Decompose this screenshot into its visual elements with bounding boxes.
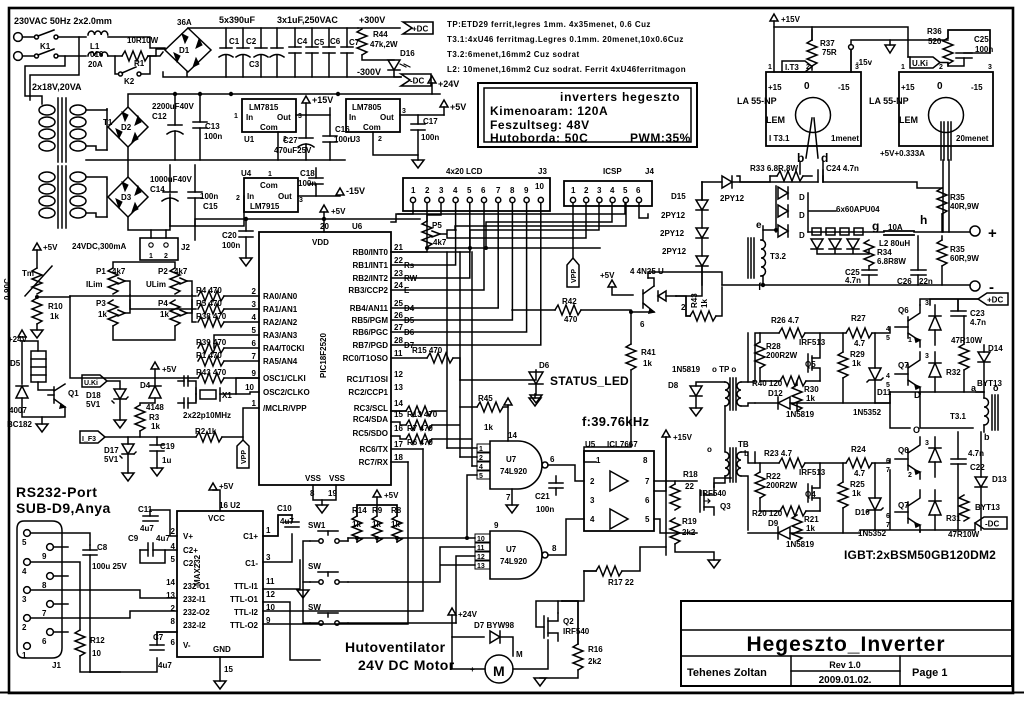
power -15V [336, 188, 344, 195]
svg-text:Q2: Q2 [563, 617, 574, 626]
svg-text:5: 5 [252, 326, 257, 335]
svg-text:10R10W: 10R10W [127, 36, 159, 45]
svg-text:C21: C21 [535, 492, 550, 501]
svg-text:Q3: Q3 [720, 502, 731, 511]
plus bus wire [808, 231, 970, 233]
connector J3 pins [410, 182, 544, 203]
svg-text:470uF25V: 470uF25V [274, 146, 312, 155]
wire TTL-I2 long [263, 449, 423, 611]
wire U5 out pin7 [654, 480, 697, 482]
svg-text:+5V: +5V [600, 271, 615, 280]
svg-text:+24V: +24V [458, 610, 478, 619]
title block [681, 601, 1012, 686]
flag VPP mclr [237, 437, 249, 468]
transformer TP right coil [737, 382, 741, 406]
svg-text:Tm: Tm [22, 269, 34, 278]
svg-text:1: 1 [149, 253, 153, 260]
svg-text:2PY12: 2PY12 [661, 211, 686, 220]
svg-text:13: 13 [394, 383, 403, 392]
switch SW1 [310, 531, 348, 543]
zener D10 [867, 498, 883, 512]
wire P5 bottom [391, 247, 427, 252]
svg-text:1: 1 [252, 399, 257, 408]
svg-text:D13: D13 [992, 475, 1007, 484]
flag U.Ki [910, 57, 940, 68]
svg-text:4: 4 [479, 464, 483, 471]
power +24V [18, 330, 26, 337]
sensor LA55 box1 [766, 72, 861, 146]
wire R8 to SW3 [348, 622, 456, 624]
crystal X1 [196, 388, 220, 401]
svg-text:D9: D9 [768, 519, 779, 528]
svg-text:+15V: +15V [673, 433, 693, 442]
transformer TP core [730, 378, 736, 410]
svg-text:+DC: +DC [987, 296, 1003, 305]
svg-text:X1: X1 [222, 391, 232, 400]
wire J1 pin5 to C8 [31, 533, 90, 545]
svg-text:28: 28 [394, 336, 403, 345]
wire bottom AC [58, 55, 86, 57]
wire +15V down [654, 437, 666, 491]
svg-text:C13: C13 [205, 122, 220, 131]
svg-text:74L920: 74L920 [500, 557, 528, 566]
wire C9 loop [140, 550, 177, 563]
svg-text:BC182: BC182 [7, 420, 32, 429]
svg-text:17: 17 [394, 440, 403, 449]
wire cathode bus [788, 182, 792, 231]
connector J2 [140, 238, 178, 260]
choke L1 winding top [88, 31, 108, 35]
svg-text:1: 1 [901, 64, 905, 71]
svg-text:2: 2 [378, 136, 382, 143]
svg-text:2200uF40V: 2200uF40V [152, 102, 194, 111]
svg-text:1: 1 [411, 186, 416, 195]
svg-text:M: M [516, 650, 523, 659]
capacitor C21 [549, 476, 563, 495]
svg-text:U3: U3 [350, 135, 361, 144]
svg-text:74L920: 74L920 [500, 467, 528, 476]
igbt diode upper [929, 305, 941, 345]
svg-text:D2: D2 [121, 123, 132, 132]
gate U7a input pins [477, 444, 490, 480]
switch K2 bypass [115, 56, 150, 76]
svg-text:3: 3 [925, 353, 929, 360]
svg-text:R10: R10 [48, 302, 63, 311]
transformer TB core [730, 448, 736, 482]
svg-text:C10: C10 [277, 504, 292, 513]
wire motor left [452, 637, 485, 669]
svg-text:P4: P4 [158, 299, 168, 308]
wire U7b out to U5 [548, 519, 584, 555]
svg-text:8: 8 [42, 581, 47, 590]
svg-text:BYT13: BYT13 [975, 503, 1000, 512]
svg-text:6: 6 [171, 638, 176, 647]
svg-text:6: 6 [645, 496, 650, 505]
svg-text:R19: R19 [682, 517, 697, 526]
MAX232 pin numbers [166, 527, 175, 647]
svg-text:ULim: ULim [146, 280, 166, 289]
svg-text:RA2/AN2: RA2/AN2 [263, 318, 298, 327]
svg-text:7: 7 [42, 609, 47, 618]
svg-text:TTL-I2: TTL-I2 [234, 608, 259, 617]
wire e to winding [761, 226, 763, 240]
svg-text:6: 6 [640, 320, 645, 329]
svg-text:RC5/SDO: RC5/SDO [352, 429, 388, 438]
svg-text:3: 3 [402, 108, 406, 115]
wire D6 [391, 203, 527, 332]
svg-text:100n: 100n [421, 133, 439, 142]
rectifier diode bus left [763, 186, 776, 232]
capacitor C1 [219, 28, 233, 77]
svg-text:LEM: LEM [899, 115, 918, 125]
svg-text:3: 3 [22, 595, 27, 604]
svg-text:2: 2 [806, 64, 810, 71]
wire RB0 [391, 248, 470, 252]
svg-text:Hegeszto_Inverter: Hegeszto_Inverter [746, 633, 945, 656]
svg-text:C2-: C2- [183, 559, 196, 568]
wire Q2 drain top [557, 601, 559, 613]
svg-text:b: b [984, 432, 990, 442]
wire J4 pin4 horizontal [486, 203, 612, 248]
svg-text:ILim: ILim [86, 280, 102, 289]
svg-text:Out: Out [277, 113, 291, 122]
wire P4 wiper to RA2 [192, 295, 196, 322]
svg-text:3: 3 [855, 64, 859, 71]
svg-text:Out: Out [278, 192, 292, 201]
ground below C20 [240, 258, 252, 266]
svg-text:+15V: +15V [312, 95, 333, 105]
svg-text:47R10W: 47R10W [951, 336, 983, 345]
svg-text:-300V: -300V [357, 67, 381, 77]
flag -DC right [975, 517, 1007, 529]
svg-text:+DC: +DC [412, 25, 428, 34]
wire TTL rows to PIC [263, 560, 300, 589]
opto emitter to R41 [631, 312, 654, 344]
svg-text:IRF513: IRF513 [799, 468, 826, 477]
svg-text:C12: C12 [152, 112, 167, 121]
svg-text:SUB-D9,Anya: SUB-D9,Anya [16, 500, 111, 516]
potentiometer P4 [170, 300, 192, 326]
svg-text:C9: C9 [128, 534, 139, 543]
wire pots to ground [113, 326, 175, 340]
svg-text:RC0/T1OSO: RC0/T1OSO [343, 354, 388, 363]
wire C10 to C1 pins [263, 515, 292, 536]
svg-text:C7: C7 [153, 633, 164, 642]
resistor R30 1k [792, 385, 802, 411]
ground MAX232 [214, 681, 226, 689]
wire TP secondary to channel [741, 333, 755, 406]
svg-text:SW1: SW1 [308, 521, 326, 530]
svg-text:D: D [799, 231, 805, 240]
svg-text:200R2W: 200R2W [766, 351, 798, 360]
wire U3 out to +5V [400, 114, 444, 116]
svg-text:2: 2 [171, 527, 176, 536]
svg-text:VSS: VSS [329, 474, 346, 483]
svg-text:OSC1/CLKI: OSC1/CLKI [263, 374, 306, 383]
svg-text:3: 3 [266, 553, 271, 562]
svg-text:U.Ki: U.Ki [912, 59, 928, 68]
ground flag near gate [529, 398, 541, 406]
capacitor C15 [188, 165, 202, 226]
wire Q3 drain up to TB [714, 478, 731, 487]
svg-text:I.T3: I.T3 [785, 63, 799, 72]
svg-text:11: 11 [394, 349, 403, 358]
svg-text:4: 4 [171, 542, 176, 551]
svg-text:D1: D1 [179, 46, 190, 55]
svg-text:1N5819: 1N5819 [786, 540, 815, 549]
svg-text:D18: D18 [86, 391, 101, 400]
svg-text:2PY12: 2PY12 [660, 229, 685, 238]
svg-text:SW: SW [308, 603, 321, 612]
svg-text:13: 13 [166, 591, 175, 600]
svg-text:200R2W: 200R2W [766, 481, 798, 490]
resistor R12 10 [75, 630, 85, 656]
svg-text:C20: C20 [222, 231, 237, 240]
svg-text:2: 2 [22, 623, 27, 632]
svg-text:22n: 22n [919, 277, 933, 286]
svg-text:2x22p10MHz: 2x22p10MHz [183, 411, 231, 420]
svg-text:10: 10 [245, 383, 254, 392]
pin numbers left [245, 287, 256, 408]
svg-text:24V DC Motor: 24V DC Motor [358, 657, 455, 673]
svg-text:20menet: 20menet [956, 134, 989, 143]
diode 2PY12 b [696, 228, 708, 238]
svg-text:RA4/T0CKI: RA4/T0CKI [263, 344, 304, 353]
diode 2PY12 a [696, 200, 708, 210]
wire J1 pin4 down [31, 562, 80, 630]
zener D18 5V1 [112, 389, 128, 403]
wire to Tm [36, 250, 38, 268]
svg-text:100n: 100n [200, 192, 218, 201]
wire J4 pin2 horizontal [447, 203, 586, 238]
resistor R28 200R2W [755, 342, 765, 368]
svg-text:3: 3 [299, 197, 303, 204]
svg-text:C19: C19 [160, 442, 175, 451]
svg-text:24VDC,300mA: 24VDC,300mA [72, 242, 126, 251]
transistor Q1 BC182 [22, 384, 65, 417]
svg-text:R16: R16 [588, 645, 603, 654]
wire f long line [722, 284, 970, 286]
capacitor C14 [162, 165, 178, 226]
power +5V switches [373, 490, 381, 497]
diode 2PY12 top horizontal [722, 176, 732, 188]
svg-text:+5V: +5V [450, 102, 466, 112]
svg-text:2PY12: 2PY12 [662, 247, 687, 256]
IC U6 PIC18F2520 box [259, 232, 391, 485]
svg-text:J2: J2 [181, 243, 190, 252]
svg-text:8: 8 [171, 617, 176, 626]
svg-text:RB7/PGD: RB7/PGD [352, 341, 388, 350]
svg-text:75R: 75R [822, 48, 837, 57]
svg-text:C6: C6 [330, 37, 341, 46]
svg-text:T3.2: T3.2 [770, 252, 787, 261]
ground Q1 [41, 417, 43, 424]
wire gate a inputs [447, 448, 477, 538]
power +5V U6 [320, 205, 328, 212]
svg-text:IRF540: IRF540 [700, 489, 727, 498]
svg-text:J1: J1 [52, 661, 61, 670]
svg-text:J3: J3 [538, 167, 547, 176]
relay coil K [22, 341, 54, 390]
svg-text:g: g [872, 219, 879, 233]
transformer T1 lower core [58, 166, 66, 228]
wire TTL-O2 long [263, 462, 408, 624]
ground D6 [535, 384, 537, 395]
svg-text:RB4/AN11: RB4/AN11 [350, 304, 389, 313]
svg-text:SW: SW [308, 562, 321, 571]
gate U7b input pins [475, 534, 490, 570]
svg-text:3: 3 [439, 186, 444, 195]
sensor LA55 box2 circle [929, 98, 964, 133]
svg-text:230VAC 50Hz 2x2.0mm: 230VAC 50Hz 2x2.0mm [14, 16, 112, 26]
pin stub wires J1 [54, 547, 68, 632]
wire T1 secondaries to bridges [86, 109, 107, 217]
wire C11 [150, 510, 177, 536]
svg-text:T3.2:6menet,16mm2 Cuz sodrat: T3.2:6menet,16mm2 Cuz sodrat [447, 50, 580, 59]
svg-text:LEM: LEM [766, 115, 785, 125]
ground D18 [119, 399, 121, 420]
wire bridge top bus [188, 27, 358, 29]
svg-text:In: In [349, 113, 356, 122]
svg-text:4.7: 4.7 [854, 469, 866, 478]
diode down 3 [847, 239, 859, 249]
LCD display inner box [484, 88, 691, 142]
wire E [391, 203, 484, 290]
svg-text:520: 520 [928, 37, 942, 46]
svg-text:e: e [756, 220, 762, 231]
svg-text:Hutoventilator: Hutoventilator [345, 639, 446, 655]
transformer TB left coil [725, 452, 729, 476]
svg-text:R30: R30 [804, 385, 819, 394]
svg-text:5: 5 [479, 473, 483, 480]
diode rect 3 [778, 225, 788, 237]
svg-text:R18: R18 [683, 470, 698, 479]
svg-text:7: 7 [645, 477, 650, 486]
svg-text:3: 3 [597, 186, 602, 195]
svg-text:4x20 LCD: 4x20 LCD [446, 167, 483, 176]
svg-text:PWM:35%: PWM:35% [630, 131, 691, 145]
svg-text:3: 3 [925, 300, 929, 307]
svg-text:1k: 1k [352, 520, 361, 529]
power +5V gate [504, 398, 512, 405]
svg-text:o: o [993, 383, 999, 393]
svg-text:6: 6 [636, 186, 641, 195]
svg-text:5V1: 5V1 [104, 455, 119, 464]
svg-text:1: 1 [268, 171, 272, 178]
svg-text:9: 9 [42, 552, 47, 561]
svg-text:U6: U6 [352, 222, 363, 231]
diode rect 1 [778, 187, 788, 199]
svg-text:RB2/INT2: RB2/INT2 [352, 274, 388, 283]
svg-text:100n: 100n [298, 179, 316, 188]
wire opto collector to f [648, 272, 722, 285]
wire R trio bottoms to bus [357, 538, 397, 542]
resistor R37 75R [807, 40, 817, 66]
svg-text:R41: R41 [641, 348, 656, 357]
svg-text:R21: R21 [804, 515, 819, 524]
svg-text:RS232-Port: RS232-Port [16, 484, 97, 500]
wire Q2 gate [536, 601, 562, 627]
wire RA3 row [214, 335, 259, 348]
svg-text:C2+: C2+ [183, 546, 198, 555]
svg-text:o TP o: o TP o [712, 365, 736, 374]
ground D8 [690, 408, 702, 416]
svg-text:GND: GND [213, 645, 231, 654]
wire J3 pin2 [427, 203, 600, 248]
svg-text:R28: R28 [766, 342, 781, 351]
svg-text:2k2: 2k2 [682, 528, 696, 537]
svg-text:4: 4 [886, 373, 890, 380]
sensor box2 winding wires [941, 122, 951, 160]
svg-text:C18: C18 [300, 169, 315, 178]
svg-text:1k: 1k [151, 422, 160, 431]
svg-text:RC7/RX: RC7/RX [359, 458, 389, 467]
zener D11 [867, 368, 883, 382]
mid rail wire [86, 159, 345, 161]
transformer T1 upper core [58, 98, 66, 162]
wire R36 C25 loop [948, 30, 990, 53]
wire sensor2 to plus bus [943, 160, 949, 232]
wire R rail top [357, 505, 397, 516]
power +5V thermistor [33, 243, 41, 250]
svg-text:R42: R42 [562, 297, 577, 306]
wire +DC rail [930, 299, 978, 310]
capacitor C6 [323, 28, 335, 77]
svg-text:1: 1 [22, 651, 27, 660]
wire Tm tap to PIC [37, 296, 196, 297]
wire R19 bottom to gnd [675, 544, 714, 560]
transformer TP left coil [725, 382, 729, 406]
svg-text:R12: R12 [90, 636, 105, 645]
svg-text:TTL-O1: TTL-O1 [230, 595, 259, 604]
svg-text:C27: C27 [283, 136, 298, 145]
svg-text:5: 5 [623, 186, 628, 195]
wire flag to zener D17 [105, 437, 128, 444]
winding T3.2 coil [761, 240, 766, 276]
svg-text:47k,2W: 47k,2W [370, 40, 398, 49]
wire J4 pin5 long [398, 203, 625, 214]
svg-text:47R10W: 47R10W [948, 530, 980, 539]
regulator U1 LM7815 [242, 99, 296, 132]
svg-text:24: 24 [394, 281, 403, 290]
switch K1 pole1 [23, 30, 59, 39]
wire R1 to bridge [148, 52, 163, 56]
svg-text:1: 1 [571, 186, 576, 195]
svg-text:7: 7 [506, 493, 511, 502]
svg-text:232-O1: 232-O1 [183, 582, 210, 591]
resistor R33 [777, 171, 803, 181]
capacitor C12 [167, 94, 183, 160]
transformer T1 upper primary [39, 105, 55, 151]
svg-text:RC6/TX: RC6/TX [360, 445, 389, 454]
svg-text:RB5/PGM: RB5/PGM [352, 316, 389, 325]
wire J3 pin1 gnd [391, 203, 413, 222]
wire R44 to D16 [362, 55, 394, 60]
wire lower diode bus [817, 249, 869, 254]
svg-text:U4: U4 [241, 169, 252, 178]
wire D4 to R3 [140, 398, 155, 405]
svg-text:+5V: +5V [331, 207, 346, 216]
svg-text:Q5: Q5 [805, 360, 816, 369]
svg-text:1k: 1k [852, 359, 861, 368]
svg-text:4k7: 4k7 [112, 267, 126, 276]
svg-text:12: 12 [477, 554, 485, 561]
flag I_F3 left [80, 431, 105, 443]
wire R12 bottom [80, 656, 120, 672]
svg-text:1: 1 [596, 456, 601, 465]
svg-text:60R,9W: 60R,9W [950, 254, 979, 263]
svg-text:-15V: -15V [346, 186, 365, 196]
